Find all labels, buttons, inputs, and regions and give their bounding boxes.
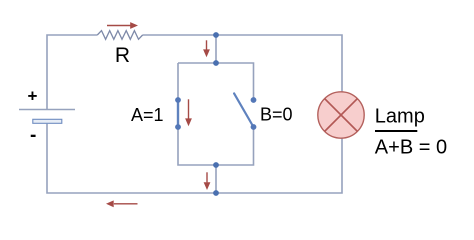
junction node box top (213, 60, 219, 66)
svg-text:+: + (28, 87, 38, 106)
svg-text:Lamp: Lamp (375, 105, 425, 127)
svg-text:B=0: B=0 (260, 105, 293, 125)
lamp (circle with X) (318, 92, 364, 138)
svg-text:A=1: A=1 (131, 105, 164, 125)
wire connector top (node to switch box) (215, 35, 217, 63)
junction node box bottom (213, 162, 219, 168)
switch A bottom contact (175, 124, 181, 130)
fraction bar under Lamp (375, 130, 417, 132)
svg-text:A+B = 0: A+B = 0 (375, 136, 447, 158)
resistor R zigzag body (97, 31, 142, 40)
current arrow above resistor (right) (107, 22, 138, 29)
switch B blade (open) (234, 93, 253, 127)
junction node top wire (213, 32, 219, 38)
switch A blade (closed) (177, 100, 179, 127)
wire outer loop (top, right, bottom, left sides with battery gap) (47, 35, 342, 193)
switch B bottom contact (251, 124, 257, 130)
svg-text:R: R (115, 44, 130, 67)
switch box frame (parallel branch) (178, 63, 254, 165)
switch A top contact (175, 97, 181, 103)
current arrow into branch (down, top) (203, 40, 210, 57)
battery top plate (+) (19, 109, 75, 111)
wire connector bottom (switch box to bottom wire) (215, 165, 217, 193)
current arrow through switch A (down) (185, 99, 192, 126)
battery bottom plate (-) (33, 119, 62, 123)
current arrow on bottom wire (left) (106, 200, 138, 207)
junction node bottom wire (213, 190, 219, 196)
svg-text:-: - (30, 125, 36, 146)
switch B top contact (251, 97, 257, 103)
current arrow out of branch (down, bottom) (204, 172, 211, 190)
